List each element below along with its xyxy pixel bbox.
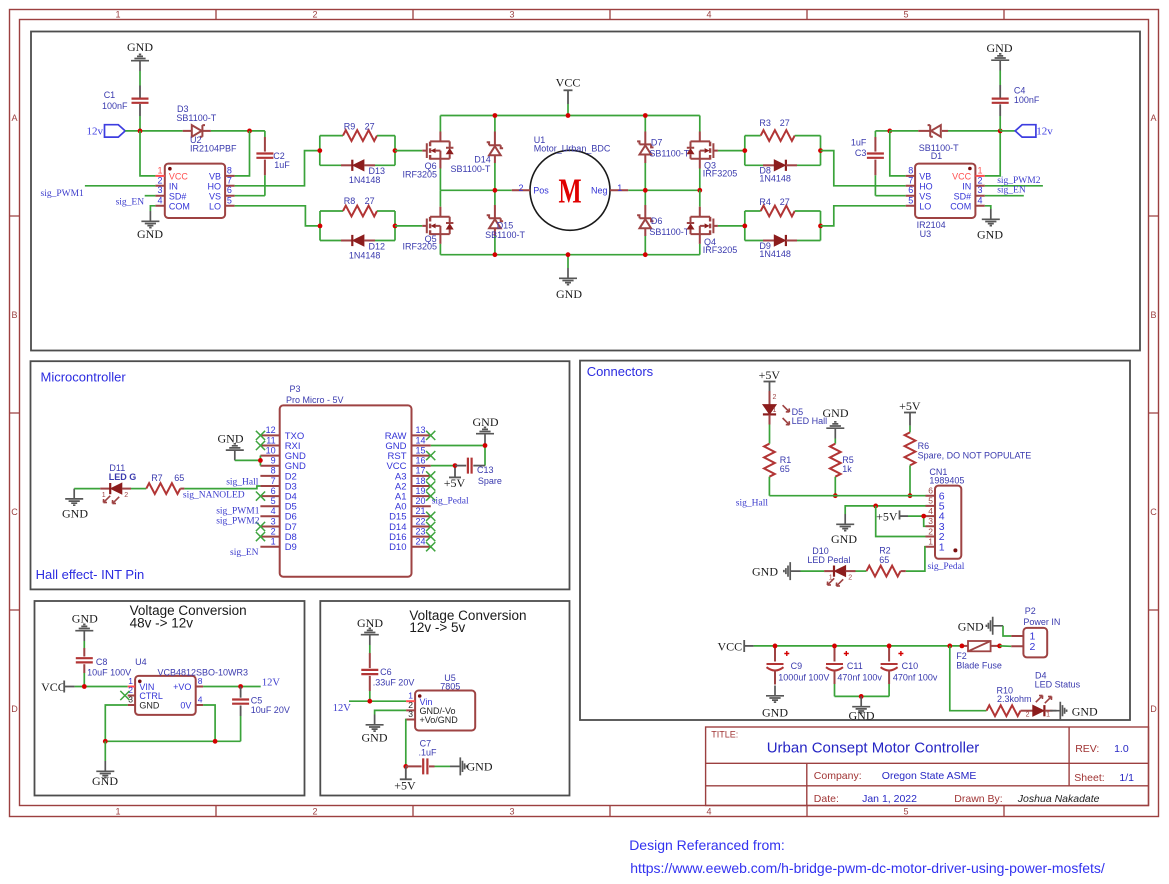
svg-text:VB: VB bbox=[919, 172, 931, 182]
ground GND (left of D11) bbox=[65, 489, 83, 506]
wire R5 to rail bbox=[834, 477, 836, 496]
wire fuse to P2 pin2 bbox=[1000, 645, 1012, 647]
op-amp U2 IR2104PBF gate driver bbox=[165, 164, 225, 218]
diode D9 1N4148 bbox=[745, 240, 763, 242]
wire R9 loop verticals bbox=[319, 136, 321, 166]
svg-text:21: 21 bbox=[416, 506, 426, 516]
svg-text:sig_Pedal: sig_Pedal bbox=[928, 562, 965, 572]
wire U4 0V to bottom rail bbox=[203, 705, 215, 741]
svg-text:GND: GND bbox=[467, 759, 493, 773]
svg-text:Design Referanced from:: Design Referanced from: bbox=[629, 837, 785, 853]
svg-text:GND: GND bbox=[72, 611, 98, 625]
svg-text:7: 7 bbox=[227, 175, 232, 185]
svg-text:VCC: VCC bbox=[556, 75, 581, 89]
svg-text:.33uF 20V: .33uF 20V bbox=[373, 678, 415, 688]
svg-text:VCB4812SBO-10WR3: VCB4812SBO-10WR3 bbox=[158, 668, 249, 678]
svg-text:GND: GND bbox=[357, 616, 383, 630]
svg-text:R9: R9 bbox=[344, 122, 356, 132]
svg-text:1989405: 1989405 bbox=[929, 475, 964, 485]
svg-text:LED Pedal: LED Pedal bbox=[807, 555, 850, 565]
wire GND to C1 bbox=[139, 71, 141, 86]
pin stubs CN1 bbox=[926, 496, 936, 547]
wire R3 loop verticals bbox=[744, 136, 746, 166]
svg-text:D9: D9 bbox=[285, 542, 297, 553]
svg-text:sig_Hall: sig_Hall bbox=[736, 499, 769, 509]
svg-text:3: 3 bbox=[509, 10, 514, 20]
svg-text:IN: IN bbox=[169, 181, 178, 191]
svg-text:sig_PWM2: sig_PWM2 bbox=[216, 517, 260, 527]
svg-text:GND: GND bbox=[362, 731, 388, 745]
wire U4 GND to bottom rail bbox=[105, 705, 127, 741]
svg-text:2: 2 bbox=[312, 10, 317, 20]
svg-text:1: 1 bbox=[1046, 712, 1050, 719]
svg-text:GND: GND bbox=[987, 41, 1013, 55]
motor U1 Motor_Urban_BDC bbox=[530, 150, 610, 230]
junction +5V C7 node bbox=[403, 764, 408, 769]
wire D3 to VB node bbox=[211, 130, 265, 132]
pin stubs U3 bbox=[906, 176, 985, 206]
svg-text:https://www.eeweb.com/h-bridge: https://www.eeweb.com/h-bridge-pwm-dc-mo… bbox=[630, 860, 1105, 876]
svg-text:P3: P3 bbox=[290, 384, 301, 394]
ref dot U5 bbox=[418, 694, 422, 698]
wire R4 loop verticals bbox=[744, 211, 746, 241]
svg-text:6: 6 bbox=[227, 185, 232, 195]
junction D14-D15 mid bbox=[493, 188, 498, 193]
svg-text:470nf 100v: 470nf 100v bbox=[837, 673, 882, 683]
svg-text:12v: 12v bbox=[87, 126, 104, 138]
svg-text:GND: GND bbox=[849, 709, 875, 723]
junction 12v-C1 node bbox=[138, 129, 143, 134]
svg-text:1.0: 1.0 bbox=[1114, 743, 1129, 755]
svg-text:27: 27 bbox=[780, 118, 790, 128]
svg-text:C9: C9 bbox=[791, 661, 803, 671]
diode D3 SB1100-T bbox=[183, 130, 191, 132]
wire bottom rail vc1 bbox=[105, 740, 240, 742]
svg-text:2: 2 bbox=[1030, 641, 1036, 653]
wire VB node down to U2 pin8 bbox=[235, 131, 250, 176]
svg-text:48v -> 12v: 48v -> 12v bbox=[130, 615, 194, 630]
wire D11 to R7 bbox=[131, 488, 146, 490]
ground GND bottom vc1 bbox=[104, 741, 106, 761]
junction R9 loop right bbox=[393, 148, 398, 153]
svg-text:GND: GND bbox=[62, 507, 88, 521]
wire Q4 drain from mid rail bbox=[699, 190, 701, 206]
ground GND (below motor) bbox=[567, 255, 569, 268]
svg-text:A: A bbox=[1150, 113, 1156, 123]
capacitor C3 1uF bbox=[874, 131, 876, 137]
svg-text:SD#: SD# bbox=[954, 191, 972, 201]
wire R6 to rail bbox=[909, 465, 911, 495]
svg-text:5: 5 bbox=[928, 496, 933, 506]
svg-text:GND: GND bbox=[752, 564, 778, 578]
junction VCC top rail bbox=[566, 113, 571, 118]
op-amp U3 IR2104 gate driver (mirrored) bbox=[915, 164, 975, 218]
label sig_PWM2 and wire to U3 pin2 bbox=[985, 185, 1043, 187]
regulator U4 VCB4812SBO-10WR3 bbox=[135, 676, 196, 715]
wire U4 +VO to 12V bbox=[203, 686, 261, 688]
svg-text:sig_Hall: sig_Hall bbox=[226, 477, 259, 487]
svg-text:U4: U4 bbox=[135, 657, 147, 667]
wire loop to Q5 gate bbox=[395, 225, 422, 227]
wire +5V to CN1 pin4 and pin3 bbox=[908, 515, 926, 517]
svg-text:GND: GND bbox=[958, 620, 984, 634]
svg-text:2: 2 bbox=[128, 685, 133, 695]
svg-text:VCC: VCC bbox=[718, 639, 743, 653]
svg-text:2: 2 bbox=[773, 394, 777, 401]
wire VCC rail bbox=[754, 645, 962, 647]
ground GND right of D4 bbox=[1053, 710, 1057, 712]
svg-text:sig_NANOLED: sig_NANOLED bbox=[183, 491, 245, 501]
svg-text:Sheet:: Sheet: bbox=[1074, 772, 1104, 784]
capacitor C13 Spare bbox=[455, 465, 466, 467]
wire U2 LO to R8/D12 loop bbox=[235, 206, 320, 226]
svg-text:B: B bbox=[1150, 310, 1156, 320]
svg-text:2: 2 bbox=[312, 807, 317, 817]
capacitor C9 1000uf 100V bbox=[774, 646, 776, 662]
wire D5 to R1 bbox=[769, 425, 771, 444]
svg-text:9: 9 bbox=[271, 456, 276, 466]
svg-text:Power IN: Power IN bbox=[1023, 617, 1060, 627]
svg-text:12V: 12V bbox=[262, 678, 281, 689]
resistor R2 65 bbox=[867, 566, 901, 577]
svg-text:1uF: 1uF bbox=[851, 137, 867, 147]
diode D15 SB1100-T bbox=[494, 190, 496, 205]
svg-text:D7: D7 bbox=[651, 138, 663, 148]
svg-text:M: M bbox=[558, 171, 581, 210]
svg-text:1: 1 bbox=[928, 537, 933, 547]
junction C5 12V node bbox=[238, 684, 243, 689]
ground GND below C11-C10 bbox=[852, 696, 870, 713]
svg-text:2: 2 bbox=[848, 574, 852, 581]
svg-text:C: C bbox=[1150, 507, 1157, 517]
svg-text:23: 23 bbox=[416, 526, 426, 536]
svg-text:14: 14 bbox=[416, 435, 426, 445]
svg-text:F2: F2 bbox=[956, 651, 967, 661]
ground GND above C8 bbox=[75, 624, 93, 641]
ground GND right of C7 bbox=[450, 757, 467, 775]
svg-text:C3: C3 bbox=[855, 148, 867, 158]
svg-text:GND: GND bbox=[762, 706, 788, 720]
svg-text:8: 8 bbox=[198, 676, 203, 686]
svg-text:GND: GND bbox=[137, 227, 163, 241]
junction pin16 +5V bbox=[453, 463, 458, 468]
svg-text:27: 27 bbox=[365, 196, 375, 206]
svg-text:3: 3 bbox=[157, 185, 162, 195]
svg-text:SB1100-T: SB1100-T bbox=[176, 113, 216, 123]
wire Q4 gate to R4 loop bbox=[718, 225, 745, 227]
svg-text:12v -> 5v: 12v -> 5v bbox=[409, 620, 465, 635]
ground GND at P2 pin1 bbox=[986, 617, 1003, 635]
junction C6 12V node bbox=[367, 699, 372, 704]
capacitor C8 10uF 100V bbox=[83, 641, 85, 648]
svg-text:1: 1 bbox=[115, 10, 120, 20]
junction CN1 pin4 bbox=[921, 514, 926, 519]
svg-text:C10: C10 bbox=[902, 661, 919, 671]
svg-text:5: 5 bbox=[908, 195, 913, 205]
svg-text:1N4148: 1N4148 bbox=[349, 175, 381, 185]
ground GND above C6 bbox=[361, 628, 379, 645]
wire Q5 source to bottom rail bbox=[439, 234, 441, 244]
resistor R9 27 bbox=[320, 135, 343, 137]
svg-text:IR2104PBF: IR2104PBF bbox=[190, 144, 237, 154]
connector CN1 1989405 bbox=[935, 486, 961, 559]
svg-text:HO: HO bbox=[208, 181, 222, 191]
wire Q3 source to mid rail bbox=[699, 159, 701, 169]
svg-text:1: 1 bbox=[978, 165, 983, 175]
svg-text:0V: 0V bbox=[180, 701, 191, 711]
wire P3 pin14 to GND bbox=[431, 445, 485, 447]
svg-text:R8: R8 bbox=[344, 196, 356, 206]
ref dot U3 bbox=[968, 167, 972, 171]
ground GND (above C4) bbox=[991, 54, 1009, 71]
svg-text:Jan 1, 2022: Jan 1, 2022 bbox=[862, 793, 917, 805]
svg-text:Drawn By:: Drawn By: bbox=[954, 793, 1002, 805]
wire 12V to U5 pin1 bbox=[349, 700, 406, 702]
svg-text:8: 8 bbox=[227, 165, 232, 175]
svg-text:18: 18 bbox=[416, 476, 426, 486]
capacitor C10 470nf 100v bbox=[888, 646, 890, 662]
motor pin 2 Pos bbox=[512, 189, 530, 191]
svg-text:1: 1 bbox=[115, 807, 120, 817]
junction D7 top bbox=[643, 113, 648, 118]
svg-text:3: 3 bbox=[271, 516, 276, 526]
svg-text:C1: C1 bbox=[104, 90, 116, 100]
svg-text:2.3kohm: 2.3kohm bbox=[997, 694, 1032, 704]
wire loop to Q6 gate bbox=[395, 150, 422, 152]
ref dot U4 bbox=[138, 680, 142, 684]
svg-text:27: 27 bbox=[365, 122, 375, 132]
ground GND (top left, above C1) bbox=[131, 54, 149, 71]
svg-text:REV:: REV: bbox=[1075, 743, 1099, 755]
junction C9 rail bbox=[773, 644, 778, 649]
transistor Q6 IRF3205 bbox=[422, 141, 453, 159]
svg-text:1000uf 100V: 1000uf 100V bbox=[778, 673, 829, 683]
wire GND to P2 pin1 bbox=[1003, 626, 1011, 636]
svg-text:Joshua Nakadate: Joshua Nakadate bbox=[1017, 793, 1100, 805]
svg-text:D: D bbox=[1150, 704, 1157, 714]
wire bottom rail bbox=[440, 254, 699, 256]
svg-text:Pro Micro - 5V: Pro Micro - 5V bbox=[286, 395, 344, 405]
svg-text:12V: 12V bbox=[333, 703, 352, 714]
svg-text:sig_PWM1: sig_PWM1 bbox=[41, 189, 85, 199]
diode D4 LED Status bbox=[1033, 705, 1045, 716]
label sig_PWM1 and wire to U2 pin2 bbox=[85, 185, 155, 187]
wire C3 to VS of U3 bbox=[875, 195, 905, 197]
junction CN1 pin5/pin2 bbox=[873, 504, 878, 509]
svg-text:6: 6 bbox=[928, 486, 933, 496]
svg-text:1: 1 bbox=[617, 183, 622, 193]
svg-text:1: 1 bbox=[271, 537, 276, 547]
junction C8 VCC node bbox=[82, 684, 87, 689]
svg-text:IRF3205: IRF3205 bbox=[403, 170, 438, 180]
svg-text:Oregon State ASME: Oregon State ASME bbox=[882, 770, 977, 782]
svg-text:17: 17 bbox=[416, 466, 426, 476]
wire mid rail left bbox=[440, 189, 511, 191]
svg-text:5: 5 bbox=[227, 195, 232, 205]
svg-text:15: 15 bbox=[416, 445, 426, 455]
wire U5 pin3 down to +5V node bbox=[405, 720, 407, 767]
wire U2 HO to R9/D13 loop bbox=[235, 151, 320, 186]
svg-text:Spare: Spare bbox=[478, 476, 502, 486]
wire U3 pin1 to 12v node bbox=[985, 131, 1000, 176]
power +5V at C13 bbox=[454, 466, 456, 477]
wire R7 to P3 pin7 bbox=[184, 486, 260, 489]
wire R4 loop to U3 LO bbox=[821, 206, 906, 226]
junction C3-D1-VB node bbox=[887, 129, 892, 134]
ref dot CN1 bbox=[953, 548, 957, 552]
ground GND above R5 bbox=[826, 422, 844, 439]
resistor R7 65 bbox=[146, 483, 180, 494]
ground GND below U3 pin4 bbox=[985, 206, 991, 209]
svg-text:VS: VS bbox=[209, 191, 221, 201]
svg-text:GND: GND bbox=[127, 40, 153, 54]
svg-text:1k: 1k bbox=[842, 464, 852, 474]
junction VCC rail to R10 branch bbox=[947, 644, 952, 649]
wire R3 loop to U3 HO bbox=[821, 151, 906, 186]
svg-text:2: 2 bbox=[271, 526, 276, 536]
svg-text:3: 3 bbox=[509, 807, 514, 817]
svg-text:3: 3 bbox=[408, 709, 413, 719]
ground GND right of P3 pin14 bbox=[476, 427, 494, 444]
ground GND below U2 pin4 bbox=[150, 206, 155, 211]
svg-text:Urban Consept Motor Controller: Urban Consept Motor Controller bbox=[767, 740, 980, 757]
junction bottom rail right bbox=[213, 739, 218, 744]
svg-text:LO: LO bbox=[209, 201, 221, 211]
no-connect X marks P3 bbox=[256, 431, 265, 440]
svg-text:3: 3 bbox=[928, 516, 933, 526]
junction R8 loop right bbox=[393, 224, 398, 229]
wire VS U2 pin6 to C2 bbox=[235, 195, 265, 197]
motor pin 1 Neg bbox=[610, 189, 628, 191]
diode D5 LED Hall bbox=[769, 391, 771, 405]
junction 12v node right bbox=[998, 129, 1003, 134]
junction P3 pin9 gnd bbox=[258, 458, 263, 463]
diode D10 LED Pedal bbox=[824, 570, 834, 572]
svg-text:8: 8 bbox=[908, 165, 913, 175]
svg-text:+5V: +5V bbox=[759, 368, 781, 382]
pin stubs P3 bbox=[260, 435, 430, 546]
junction fuse left bbox=[960, 644, 965, 649]
svg-text:22: 22 bbox=[416, 516, 426, 526]
svg-text:1N4148: 1N4148 bbox=[349, 250, 381, 260]
svg-text:13: 13 bbox=[416, 425, 426, 435]
svg-text:Spare, DO NOT POPULATE: Spare, DO NOT POPULATE bbox=[918, 450, 1032, 460]
wire Q3 gate to R3 loop bbox=[718, 150, 745, 152]
resistor R6 Spare DO NOT POPULATE bbox=[909, 426, 911, 433]
wire Q6 source to mid rail bbox=[439, 159, 441, 169]
capacitor C7 .1uF bbox=[406, 765, 422, 767]
junction D14 top bbox=[493, 113, 498, 118]
svg-text:GND: GND bbox=[831, 532, 857, 546]
svg-text:SB1100-T: SB1100-T bbox=[485, 230, 525, 240]
svg-text:U3: U3 bbox=[920, 229, 932, 239]
regulator U5 7805 bbox=[415, 691, 475, 731]
svg-text:.1uF: .1uF bbox=[419, 748, 438, 758]
svg-text:LED G: LED G bbox=[109, 472, 137, 482]
svg-text:6: 6 bbox=[271, 486, 276, 496]
svg-text:C: C bbox=[11, 507, 18, 517]
wire U5 pin2 to GND bbox=[375, 710, 407, 714]
wire rail down to R10 bbox=[950, 646, 987, 711]
svg-text:GND: GND bbox=[977, 228, 1003, 242]
svg-text:7: 7 bbox=[908, 175, 913, 185]
wire Q6 drain to top rail bbox=[439, 132, 441, 142]
svg-text:C6: C6 bbox=[380, 667, 392, 677]
svg-text:1N4148: 1N4148 bbox=[759, 249, 791, 259]
capacitor C2 1uF bbox=[264, 131, 266, 137]
wire R8 loop verticals bbox=[319, 211, 321, 241]
capacitor C4 100nF bbox=[999, 116, 1001, 131]
svg-text:1: 1 bbox=[157, 165, 162, 175]
svg-text:D: D bbox=[11, 704, 18, 714]
svg-text:3: 3 bbox=[978, 185, 983, 195]
wire 12v node to U2 pin1 bbox=[140, 131, 155, 176]
svg-text:sig_EN: sig_EN bbox=[230, 548, 259, 558]
svg-text:D6: D6 bbox=[651, 216, 663, 226]
svg-text:C8: C8 bbox=[96, 657, 108, 667]
svg-text:sig_PWM1: sig_PWM1 bbox=[216, 507, 260, 517]
svg-text:P2: P2 bbox=[1025, 606, 1036, 616]
svg-text:Microcontroller: Microcontroller bbox=[41, 369, 127, 384]
junction Q3-Q4 mid bbox=[697, 188, 702, 193]
svg-text:1/1: 1/1 bbox=[1119, 772, 1134, 784]
ground GND below CN1 pin5 branch bbox=[836, 514, 854, 531]
svg-text:4: 4 bbox=[271, 506, 276, 516]
junction R5 rail bbox=[833, 493, 838, 498]
svg-text:2: 2 bbox=[1026, 712, 1030, 719]
svg-text:10uF 100V: 10uF 100V bbox=[87, 668, 131, 678]
resistor R8 27 bbox=[320, 210, 343, 212]
svg-text:Company:: Company: bbox=[814, 770, 862, 782]
wire junction down to CN1 pin2 bbox=[876, 506, 926, 537]
svg-text:19: 19 bbox=[416, 486, 426, 496]
ground GND at P3 pins 9-10 bbox=[226, 444, 244, 461]
svg-text:R7: R7 bbox=[151, 473, 163, 483]
capacitor C1 100nF bbox=[139, 86, 141, 98]
svg-text:7805: 7805 bbox=[440, 681, 460, 691]
svg-text:5: 5 bbox=[903, 10, 908, 20]
svg-text:C13: C13 bbox=[477, 465, 494, 475]
svg-text:24: 24 bbox=[416, 537, 426, 547]
port 12v (right) bbox=[1000, 130, 1015, 132]
svg-text:11: 11 bbox=[266, 435, 275, 445]
no-connect X U4 pin2 bbox=[120, 691, 129, 700]
wire C1 to 12v node bbox=[139, 116, 141, 131]
svg-text:LED Status: LED Status bbox=[1035, 679, 1081, 689]
svg-text:GND: GND bbox=[139, 701, 160, 711]
svg-text:+Vo/GND: +Vo/GND bbox=[420, 715, 459, 725]
svg-text:SB1100-T: SB1100-T bbox=[451, 164, 491, 174]
wire P3 pin16 to +5V bbox=[431, 465, 455, 467]
svg-text:Motor_Urban_BDC: Motor_Urban_BDC bbox=[534, 143, 611, 153]
junction R3 loop left bbox=[742, 148, 747, 153]
wire C3 top to 12v node bbox=[875, 130, 889, 132]
resistor R1 65 bbox=[764, 444, 775, 477]
svg-text:1: 1 bbox=[102, 492, 106, 499]
resistor R4 27 bbox=[745, 210, 761, 212]
label sig_EN and wire to U3 pin3 bbox=[985, 195, 1024, 197]
junction pin14 gnd bbox=[483, 443, 488, 448]
svg-text:1uF: 1uF bbox=[274, 160, 290, 170]
svg-text:LO: LO bbox=[919, 201, 931, 211]
resistor R10 2.3kohm bbox=[987, 705, 1021, 716]
svg-text:R3: R3 bbox=[759, 118, 771, 128]
diode D1 SB1100-T (mirrored) bbox=[890, 130, 919, 132]
wire CN1 pin5 to GND branch bbox=[845, 506, 925, 514]
svg-text:GND: GND bbox=[218, 431, 244, 445]
junction R4 loop left bbox=[742, 224, 747, 229]
svg-text:D1: D1 bbox=[931, 151, 943, 161]
